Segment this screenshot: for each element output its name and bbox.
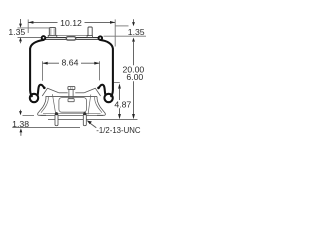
plate flange-top line (56, 34, 88, 36)
dimension 1.38: top arrow (20, 110, 22, 112)
dimension 1.38: bottom extension line (stud bottom level) (12, 127, 80, 129)
dimension 10.12 arrow right (110, 21, 115, 24)
dimension 20.00 line upper segment (133, 42, 135, 66)
right stud / air fitting (87, 27, 92, 37)
bead plate right curl (99, 36, 103, 40)
bellows outline right (100, 40, 113, 97)
svg-text:6.00: 6.00 (126, 72, 143, 82)
bead plate left curl (42, 36, 46, 40)
svg-text:10.12: 10.12 (60, 18, 82, 28)
svg-text:-1/2-13-UNC: -1/2-13-UNC (96, 126, 141, 135)
dimension 1.35 right / 20.00 top arrow (132, 38, 135, 42)
piston plateau line (59, 92, 68, 94)
dimension 1.35 left: upper arrow (20, 19, 22, 24)
piston skirt right (97, 97, 105, 116)
leader line 1/2-13-UNC (90, 123, 97, 128)
center plate ring (66, 37, 75, 40)
piston right horn (84, 88, 100, 96)
bead plate top line (46, 37, 98, 39)
svg-text:4.87: 4.87 (114, 99, 131, 109)
bead plate bottom line (44, 38, 99, 40)
bellows left tuck ball (43, 87, 46, 90)
dimension 1.35 left: lower arrow (19, 37, 22, 41)
bellows right tuck ball (97, 87, 100, 90)
piston skirt left (38, 97, 46, 116)
bottom stud left (55, 112, 59, 126)
dimension 10.12 line (28, 21, 57, 23)
dimension 1.38: bottom arrow (20, 128, 23, 132)
dimension 8.64 arrows (43, 62, 48, 65)
dimension 10.12 arrow left (28, 21, 33, 24)
bellows left roll ring (30, 94, 38, 102)
piston inner panel (59, 98, 87, 113)
piston boss shaft (69, 90, 73, 99)
dimension 20.00 bottom arrow (132, 114, 135, 119)
piston base lines (43, 113, 101, 115)
dimension 1.35 left: extension line top (18, 27, 50, 29)
dimension 1.35 right: extension line top (115, 25, 128, 27)
piston boss nut (68, 99, 74, 102)
dimension 10.12 extension line left (27, 19, 29, 33)
dimension 20.00 line lower segment (133, 81, 135, 114)
svg-text:1.35: 1.35 (8, 27, 25, 37)
bellows left hump (38, 85, 45, 96)
dimension 8.64 extension right (99, 61, 101, 80)
svg-text:8.64: 8.64 (62, 58, 79, 68)
left mounting stud (48, 28, 57, 38)
bottom datum extension line (48, 119, 138, 121)
svg-text:1.35: 1.35 (128, 27, 145, 37)
dimension 4.87 extension top (114, 82, 120, 84)
bellows right roll ring (104, 94, 112, 102)
dimension 1.35 right: extension line bottom (plate top level) (104, 35, 147, 37)
piston left horn (42, 88, 59, 96)
dimension 4.87 lower line and arrow (119, 108, 121, 114)
bellows outline left (30, 40, 44, 97)
dimension 1.38: top extension line (foot bottom level) (23, 115, 35, 117)
bottom stud right (83, 112, 87, 126)
piston boss cap (68, 86, 75, 89)
bellows right hump (99, 85, 106, 96)
dimension 10.12 extension line right (114, 19, 116, 46)
piston top plate line (46, 95, 98, 97)
dimension 8.64 extension left (42, 61, 44, 81)
dimension 8.64 line (43, 62, 60, 64)
dimension 1.35 left: extension line bottom (18, 37, 42, 39)
dimension 1.35 right: upper arrow (133, 19, 135, 22)
dimension 4.87 top arrow (118, 83, 121, 88)
